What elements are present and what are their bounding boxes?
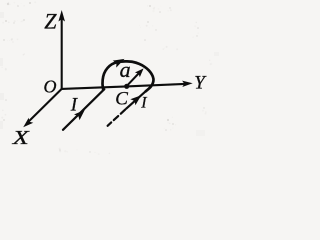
svg-text:a: a <box>120 57 131 82</box>
svg-text:Z: Z <box>44 8 57 33</box>
svg-text:I: I <box>140 95 147 112</box>
svg-text:X: X <box>11 127 29 149</box>
svg-text:C: C <box>115 89 128 110</box>
svg-text:O: O <box>44 76 57 96</box>
